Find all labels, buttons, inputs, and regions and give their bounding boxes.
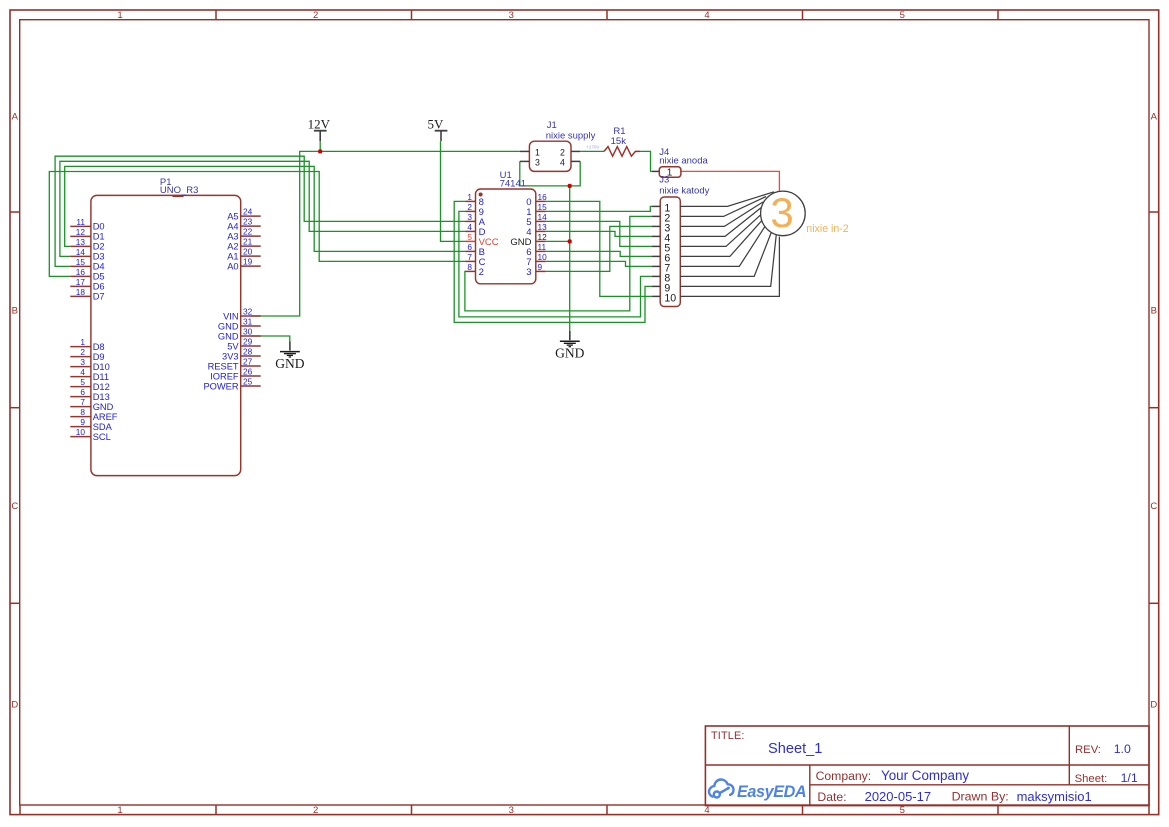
svg-text:13: 13 bbox=[538, 222, 548, 232]
svg-text:14: 14 bbox=[538, 212, 548, 222]
svg-text:SCL: SCL bbox=[93, 432, 111, 442]
svg-text:7: 7 bbox=[80, 397, 85, 407]
svg-text:B: B bbox=[1151, 305, 1157, 316]
svg-text:4: 4 bbox=[704, 805, 709, 816]
svg-text:8: 8 bbox=[467, 262, 472, 272]
svg-text:A: A bbox=[12, 111, 19, 122]
svg-text:2: 2 bbox=[467, 202, 472, 212]
svg-text:D8: D8 bbox=[93, 342, 105, 352]
svg-text:VIN: VIN bbox=[223, 311, 239, 321]
svg-text:Sheet:: Sheet: bbox=[1075, 773, 1108, 785]
svg-text:GND: GND bbox=[218, 331, 239, 341]
svg-text:32: 32 bbox=[243, 306, 253, 316]
svg-text:31: 31 bbox=[243, 316, 253, 326]
svg-text:+170V: +170V bbox=[586, 144, 600, 149]
svg-text:2: 2 bbox=[313, 805, 318, 816]
svg-text:12: 12 bbox=[76, 227, 86, 237]
svg-text:A: A bbox=[1151, 111, 1158, 122]
svg-text:6: 6 bbox=[467, 242, 472, 252]
svg-text:A3: A3 bbox=[227, 231, 238, 241]
svg-text:J3: J3 bbox=[659, 175, 669, 186]
svg-text:D0: D0 bbox=[93, 222, 105, 232]
svg-text:21: 21 bbox=[243, 237, 253, 247]
svg-text:nixie in-2: nixie in-2 bbox=[806, 223, 849, 235]
svg-text:nixie supply: nixie supply bbox=[546, 131, 596, 142]
svg-text:3: 3 bbox=[80, 357, 85, 367]
svg-text:5: 5 bbox=[900, 10, 905, 21]
svg-text:28: 28 bbox=[243, 346, 253, 356]
svg-text:D10: D10 bbox=[93, 362, 110, 372]
svg-text:19: 19 bbox=[243, 257, 253, 267]
svg-text:3: 3 bbox=[509, 805, 514, 816]
svg-text:2020-05-17: 2020-05-17 bbox=[865, 789, 932, 804]
svg-text:1: 1 bbox=[467, 192, 472, 202]
svg-text:3: 3 bbox=[526, 267, 531, 278]
svg-text:A2: A2 bbox=[227, 241, 238, 251]
svg-text:5V: 5V bbox=[227, 341, 239, 351]
svg-text:POWER: POWER bbox=[203, 381, 238, 391]
svg-text:5: 5 bbox=[80, 377, 85, 387]
svg-text:11: 11 bbox=[76, 217, 85, 227]
svg-text:14: 14 bbox=[76, 247, 86, 257]
svg-text:1: 1 bbox=[117, 10, 122, 21]
svg-text:8: 8 bbox=[80, 407, 85, 417]
svg-text:11: 11 bbox=[538, 242, 547, 252]
svg-text:7: 7 bbox=[467, 252, 472, 262]
svg-text:D12: D12 bbox=[93, 382, 110, 392]
svg-text:A5: A5 bbox=[227, 211, 238, 221]
svg-text:9: 9 bbox=[538, 262, 543, 272]
svg-text:15k: 15k bbox=[611, 136, 627, 147]
svg-text:TITLE:: TITLE: bbox=[711, 730, 745, 742]
svg-text:A1: A1 bbox=[227, 251, 238, 261]
svg-text:4: 4 bbox=[467, 222, 472, 232]
svg-text:D7: D7 bbox=[93, 292, 105, 302]
svg-text:3: 3 bbox=[535, 158, 540, 168]
svg-text:D2: D2 bbox=[93, 242, 105, 252]
svg-text:15: 15 bbox=[538, 202, 548, 212]
svg-text:9: 9 bbox=[80, 417, 85, 427]
svg-text:5: 5 bbox=[900, 805, 905, 816]
svg-text:Your Company: Your Company bbox=[881, 768, 969, 783]
svg-text:12V: 12V bbox=[308, 117, 331, 132]
svg-text:2: 2 bbox=[560, 148, 565, 158]
svg-text:C: C bbox=[11, 501, 18, 512]
svg-text:A0: A0 bbox=[227, 261, 238, 271]
svg-text:D5: D5 bbox=[93, 272, 105, 282]
svg-text:D3: D3 bbox=[93, 252, 105, 262]
svg-text:6: 6 bbox=[80, 387, 85, 397]
svg-text:B: B bbox=[12, 305, 18, 316]
svg-text:3: 3 bbox=[467, 212, 472, 222]
svg-text:30: 30 bbox=[243, 326, 253, 336]
svg-text:D: D bbox=[11, 699, 18, 710]
svg-text:10: 10 bbox=[76, 427, 86, 437]
svg-text:RESET: RESET bbox=[208, 361, 239, 371]
svg-text:16: 16 bbox=[538, 192, 548, 202]
svg-text:27: 27 bbox=[243, 356, 253, 366]
svg-text:EasyEDA: EasyEDA bbox=[737, 783, 806, 801]
svg-text:3: 3 bbox=[770, 189, 793, 236]
svg-text:maksymisio1: maksymisio1 bbox=[1017, 789, 1092, 804]
svg-text:Company:: Company: bbox=[816, 769, 872, 783]
svg-text:10: 10 bbox=[664, 293, 676, 305]
svg-text:REV:: REV: bbox=[1075, 744, 1101, 756]
svg-text:Sheet_1: Sheet_1 bbox=[768, 741, 822, 757]
svg-text:3V3: 3V3 bbox=[222, 351, 239, 361]
svg-text:D13: D13 bbox=[93, 392, 110, 402]
svg-text:4: 4 bbox=[560, 158, 565, 168]
svg-text:74141: 74141 bbox=[500, 178, 526, 189]
svg-text:24: 24 bbox=[243, 207, 253, 217]
svg-text:4: 4 bbox=[704, 10, 709, 21]
svg-text:C: C bbox=[1150, 501, 1157, 512]
svg-text:5: 5 bbox=[467, 232, 472, 242]
svg-text:16: 16 bbox=[76, 267, 86, 277]
svg-text:29: 29 bbox=[243, 336, 253, 346]
svg-text:12: 12 bbox=[538, 232, 548, 242]
svg-text:2: 2 bbox=[80, 347, 85, 357]
svg-text:Date:: Date: bbox=[817, 790, 846, 804]
svg-text:25: 25 bbox=[243, 376, 253, 386]
svg-text:D: D bbox=[1150, 699, 1157, 710]
svg-text:10: 10 bbox=[538, 252, 548, 262]
svg-text:18: 18 bbox=[76, 287, 86, 297]
svg-text:15: 15 bbox=[76, 257, 86, 267]
svg-text:D4: D4 bbox=[93, 262, 105, 272]
svg-text:1: 1 bbox=[80, 337, 85, 347]
svg-text:A4: A4 bbox=[227, 221, 238, 231]
svg-text:D11: D11 bbox=[93, 372, 109, 382]
svg-text:1.0: 1.0 bbox=[1114, 742, 1131, 756]
svg-text:D1: D1 bbox=[93, 232, 105, 242]
svg-text:23: 23 bbox=[243, 217, 253, 227]
svg-text:20: 20 bbox=[243, 247, 253, 257]
svg-text:13: 13 bbox=[76, 237, 86, 247]
svg-text:GND: GND bbox=[93, 402, 114, 412]
svg-text:nixie katody: nixie katody bbox=[659, 185, 709, 196]
svg-text:1: 1 bbox=[535, 148, 540, 158]
svg-text:4: 4 bbox=[80, 367, 85, 377]
svg-text:GND: GND bbox=[218, 321, 239, 331]
svg-text:SDA: SDA bbox=[93, 422, 113, 432]
svg-text:GND: GND bbox=[275, 356, 304, 371]
svg-text:Drawn By:: Drawn By: bbox=[952, 789, 1009, 803]
svg-text:1: 1 bbox=[117, 805, 122, 816]
svg-text:AREF: AREF bbox=[93, 412, 118, 422]
svg-text:2: 2 bbox=[479, 267, 484, 278]
svg-text:J1: J1 bbox=[547, 120, 557, 131]
svg-text:2: 2 bbox=[313, 10, 318, 21]
svg-text:22: 22 bbox=[243, 227, 253, 237]
svg-text:17: 17 bbox=[76, 277, 86, 287]
svg-text:26: 26 bbox=[243, 366, 253, 376]
svg-text:1/1: 1/1 bbox=[1121, 771, 1138, 785]
svg-text:D9: D9 bbox=[93, 352, 105, 362]
svg-text:D6: D6 bbox=[93, 282, 105, 292]
svg-text:5V: 5V bbox=[428, 117, 445, 132]
svg-text:GND: GND bbox=[555, 346, 584, 361]
svg-text:nixie anoda: nixie anoda bbox=[659, 155, 708, 166]
svg-text:UNO_R3: UNO_R3 bbox=[160, 185, 199, 196]
svg-text:3: 3 bbox=[509, 10, 514, 21]
svg-text:IOREF: IOREF bbox=[210, 371, 239, 381]
